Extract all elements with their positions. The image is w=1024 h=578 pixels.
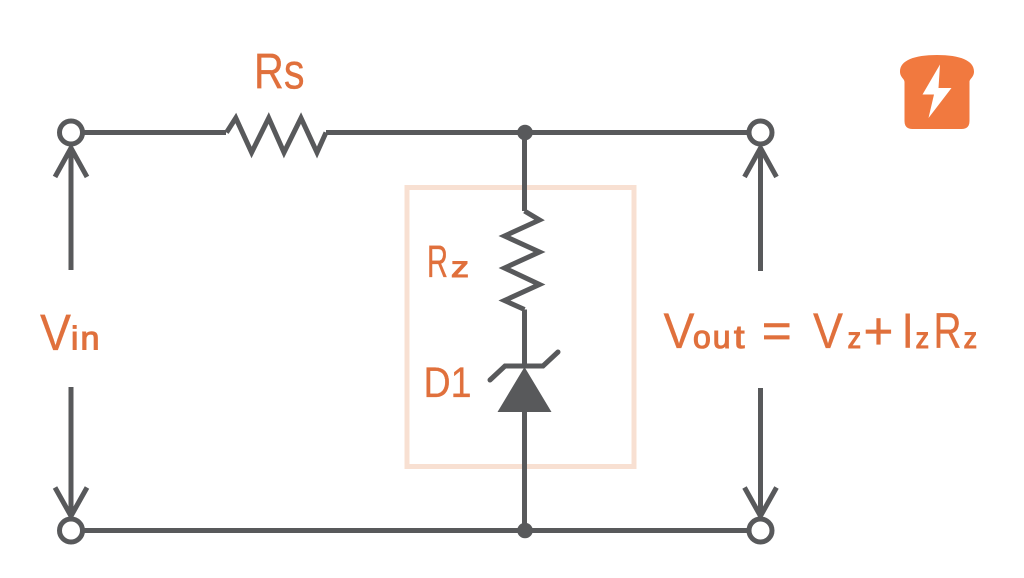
svg-text:R: R: [427, 236, 448, 287]
zener diode D1: [490, 352, 558, 412]
terminal top-left: [60, 121, 83, 144]
Vout arrow up: [745, 148, 777, 271]
wire top-left segment: [85, 130, 227, 135]
svg-text:D1: D1: [424, 359, 472, 407]
wire middle top: [522, 133, 527, 212]
label Rz: [427, 236, 469, 287]
Vout arrow down: [745, 388, 777, 516]
svg-text:V: V: [813, 303, 844, 359]
junction dot top: [517, 125, 533, 141]
Vin arrow down: [55, 387, 87, 516]
svg-text:z: z: [964, 322, 978, 355]
formula Vout = Vz + IzRz: [664, 303, 978, 359]
CircuitBread toast logo: [900, 55, 974, 129]
svg-text:R: R: [934, 303, 962, 359]
wire top-right segment: [326, 130, 747, 135]
svg-text:i: i: [71, 320, 78, 357]
resistor Rz: [505, 211, 540, 310]
wire bottom rail: [85, 528, 748, 533]
svg-text:t: t: [734, 319, 745, 355]
svg-text:u: u: [713, 319, 731, 355]
wire middle between Rz and D1: [522, 310, 527, 369]
svg-text:z: z: [916, 322, 930, 355]
terminal top-right: [749, 121, 772, 144]
svg-text:z: z: [451, 251, 469, 284]
svg-text:z: z: [848, 322, 862, 355]
svg-text:Rs: Rs: [254, 44, 305, 100]
Vin arrow up: [55, 148, 87, 270]
terminal bottom-right: [749, 519, 772, 542]
svg-text:V: V: [664, 303, 696, 359]
svg-text:V: V: [40, 304, 71, 361]
wire middle bottom: [522, 412, 527, 531]
zener branch highlight box: [407, 188, 634, 467]
svg-text:o: o: [693, 319, 711, 355]
svg-text:n: n: [81, 320, 100, 357]
junction dot bottom: [517, 523, 533, 539]
terminal bottom-left: [60, 519, 83, 542]
resistor Rs: [227, 118, 327, 153]
label Vin: [40, 304, 100, 361]
